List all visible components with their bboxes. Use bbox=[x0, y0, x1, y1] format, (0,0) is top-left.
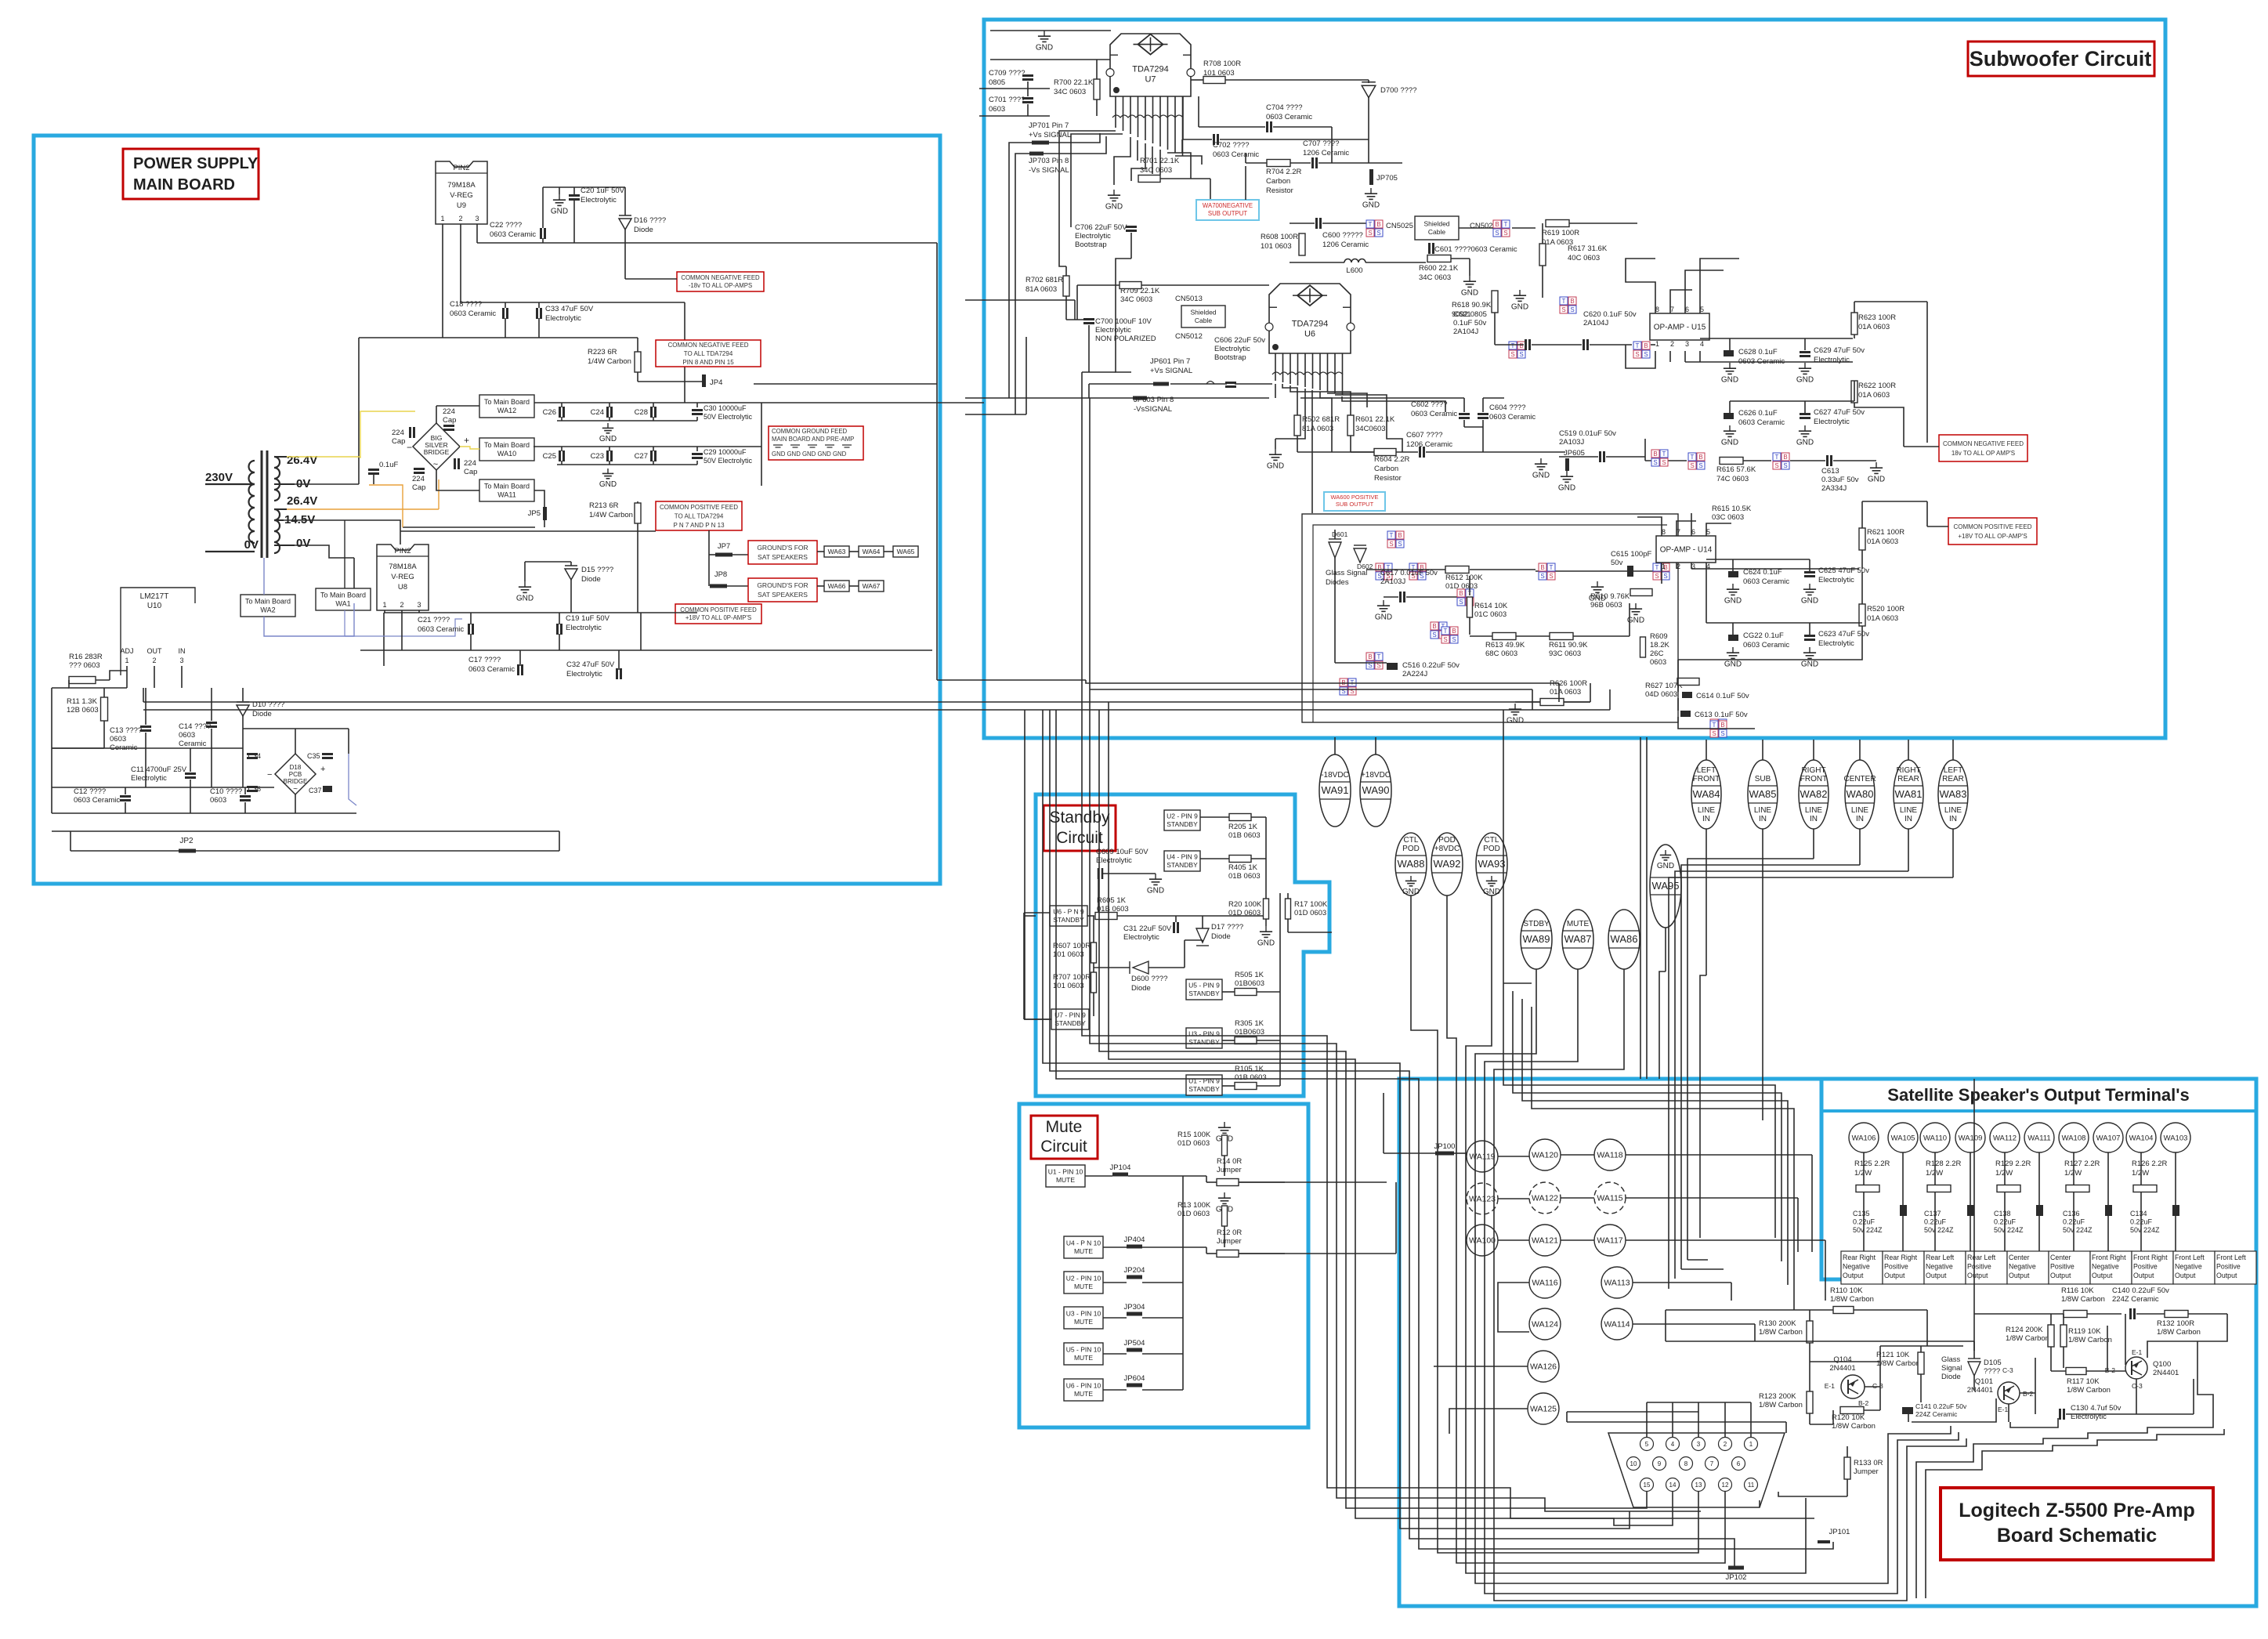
wire bbox=[125, 787, 126, 794]
svg-text:1/2W: 1/2W bbox=[2064, 1169, 2082, 1178]
svg-text:S: S bbox=[1698, 462, 1702, 469]
svg-text:C29 10000uF: C29 10000uF bbox=[704, 448, 747, 456]
resistor bbox=[1235, 989, 1257, 996]
svg-text:Output: Output bbox=[2092, 1272, 2113, 1279]
wire bbox=[274, 519, 284, 521]
svg-text:R132 100R: R132 100R bbox=[2157, 1319, 2194, 1328]
svg-text:R618 90.9K: R618 90.9K bbox=[1452, 301, 1492, 309]
capacitor bbox=[606, 450, 609, 461]
wire bbox=[1282, 374, 1284, 382]
net marker bbox=[1688, 453, 1696, 461]
svg-text:L600: L600 bbox=[1346, 266, 1362, 275]
capacitor bbox=[1173, 922, 1175, 933]
capacitor C34 bbox=[247, 753, 258, 755]
wire bbox=[1809, 1343, 1810, 1362]
svg-text:SUB: SUB bbox=[1755, 775, 1771, 783]
wire bbox=[1375, 737, 1376, 758]
wire bbox=[1470, 635, 1492, 637]
svg-text:1: 1 bbox=[440, 215, 444, 223]
wire bbox=[1222, 1040, 1235, 1041]
wire bbox=[1282, 384, 1297, 415]
op-amp U15 bbox=[1650, 313, 1709, 340]
capacitor C609 bbox=[1098, 868, 1100, 879]
svg-text:Cap: Cap bbox=[443, 416, 456, 425]
DB15 pin 15 bbox=[1640, 1478, 1654, 1492]
wire bbox=[1536, 570, 1627, 572]
svg-text:01D 0603: 01D 0603 bbox=[1177, 1139, 1210, 1148]
svg-text:101 0603: 101 0603 bbox=[1261, 242, 1292, 251]
svg-text:R15 100K: R15 100K bbox=[1177, 1131, 1211, 1139]
wire bbox=[1088, 325, 1090, 372]
wire bus bbox=[1494, 969, 1907, 1601]
resistor bbox=[1091, 972, 1097, 993]
svg-text:JP605: JP605 bbox=[1564, 449, 1585, 458]
ground bbox=[524, 581, 526, 587]
wire bbox=[1464, 426, 1483, 428]
svg-text:WA90: WA90 bbox=[1362, 784, 1390, 796]
svg-text:C627 47uF 50v: C627 47uF 50v bbox=[1814, 408, 1865, 417]
svg-text:WA91: WA91 bbox=[1322, 784, 1349, 796]
svg-text:R117 10K: R117 10K bbox=[2067, 1377, 2100, 1386]
svg-text:0.22uF: 0.22uF bbox=[2063, 1218, 2085, 1226]
capacitor 224 bbox=[409, 427, 411, 438]
voltage regulator U9 79M18A bbox=[436, 161, 487, 224]
svg-text:GND: GND bbox=[1796, 438, 1814, 447]
capacitor bbox=[1083, 318, 1094, 320]
svg-text:GROUND'S FOR: GROUND'S FOR bbox=[757, 581, 808, 589]
wire bbox=[534, 402, 984, 403]
svg-text:U8: U8 bbox=[398, 583, 407, 592]
svg-text:Electrolytic: Electrolytic bbox=[1075, 232, 1111, 241]
wire bbox=[2050, 1314, 2052, 1325]
wire bbox=[1290, 162, 1311, 164]
svg-text:Center: Center bbox=[2050, 1254, 2071, 1261]
wire bbox=[470, 613, 472, 624]
diode D600 bbox=[1133, 961, 1148, 974]
svg-text:GND: GND bbox=[1036, 43, 1053, 52]
svg-text:OP-AMP - U14: OP-AMP - U14 bbox=[1660, 546, 1713, 555]
svg-text:Rear Right: Rear Right bbox=[1884, 1254, 1918, 1261]
ground bbox=[1876, 462, 1877, 468]
svg-text:WA105: WA105 bbox=[1891, 1134, 1915, 1143]
svg-text:Diode: Diode bbox=[634, 226, 653, 234]
wire bbox=[965, 299, 1075, 301]
svg-text:224: 224 bbox=[443, 407, 455, 416]
svg-text:Output: Output bbox=[2133, 1272, 2154, 1279]
svg-text:T: T bbox=[1636, 342, 1640, 349]
wire bbox=[1647, 1402, 1751, 1403]
capacitor bbox=[1419, 447, 1421, 458]
wire bbox=[476, 224, 478, 243]
wire bbox=[1677, 521, 1696, 536]
connector WA86 bbox=[1608, 910, 1640, 969]
label grounds for sat speakers bbox=[748, 541, 817, 564]
svg-text:MUTE: MUTE bbox=[1567, 920, 1590, 928]
wire bbox=[1023, 913, 1025, 1019]
svg-text:GND: GND bbox=[1483, 888, 1500, 896]
net marker bbox=[1409, 563, 1417, 571]
wire bbox=[1089, 398, 1091, 689]
svg-text:To Main Board: To Main Board bbox=[484, 441, 530, 449]
svg-text:ADJ: ADJ bbox=[120, 647, 133, 655]
ground bbox=[1469, 276, 1470, 281]
svg-text:WA63: WA63 bbox=[828, 548, 846, 555]
svg-text:B-2: B-2 bbox=[2105, 1366, 2116, 1374]
svg-text:GND: GND bbox=[1801, 596, 1818, 605]
svg-text:2N4401: 2N4401 bbox=[1829, 1364, 1855, 1373]
connector WA63 bbox=[824, 546, 849, 557]
svg-text:POD: POD bbox=[1483, 845, 1500, 853]
cable CN5025 bbox=[1415, 216, 1459, 240]
svg-text:R621 100R: R621 100R bbox=[1867, 528, 1904, 537]
svg-text:S: S bbox=[1561, 306, 1565, 313]
wire bbox=[637, 523, 638, 613]
svg-text:FRONT: FRONT bbox=[1693, 775, 1720, 783]
wire bbox=[637, 338, 638, 352]
wire bbox=[1503, 982, 1532, 984]
svg-text:2: 2 bbox=[400, 601, 403, 609]
svg-text:13: 13 bbox=[1695, 1482, 1702, 1489]
wire bbox=[2050, 1347, 2052, 1371]
wire bbox=[1590, 683, 1591, 702]
connector WA84 bbox=[1691, 760, 1721, 829]
wire bbox=[684, 302, 685, 340]
svg-text:WA12: WA12 bbox=[497, 407, 516, 414]
wire bbox=[1934, 1152, 1936, 1185]
svg-text:R123 200K: R123 200K bbox=[1759, 1392, 1796, 1401]
svg-text:GND: GND bbox=[1507, 716, 1524, 725]
wire stair bbox=[1897, 1432, 1959, 1451]
svg-text:JP5: JP5 bbox=[528, 509, 541, 518]
svg-text:T: T bbox=[1562, 298, 1566, 305]
wire bbox=[1700, 259, 1739, 313]
connector WA90 bbox=[1360, 754, 1391, 827]
svg-text:Output: Output bbox=[2175, 1272, 2196, 1279]
svg-text:R611 90.9K: R611 90.9K bbox=[1549, 641, 1588, 649]
wire bbox=[1732, 623, 1734, 635]
svg-text:C28: C28 bbox=[635, 408, 648, 417]
wire bbox=[196, 850, 559, 852]
wire bbox=[1609, 689, 1611, 710]
svg-text:1/4W Carbon: 1/4W Carbon bbox=[589, 511, 633, 519]
wire bbox=[1287, 893, 1289, 899]
wire bbox=[1176, 915, 1266, 917]
svg-text:U2 - PIN 10: U2 - PIN 10 bbox=[1066, 1275, 1101, 1283]
wire bbox=[1065, 296, 1067, 320]
svg-text:C134: C134 bbox=[2130, 1210, 2147, 1217]
svg-text:STANDBY: STANDBY bbox=[1167, 820, 1198, 828]
svg-text:R205 1K: R205 1K bbox=[1228, 823, 1258, 831]
svg-text:0.22uF: 0.22uF bbox=[1994, 1218, 2017, 1226]
resistor R128 bbox=[1927, 1185, 1951, 1192]
svg-text:R213 6R: R213 6R bbox=[589, 501, 619, 510]
wire bbox=[1859, 829, 1861, 865]
wire bbox=[1182, 1354, 1184, 1390]
ground bbox=[1265, 926, 1267, 932]
capacitor bbox=[140, 725, 151, 728]
net marker bbox=[1457, 589, 1465, 597]
wire bus bbox=[1043, 710, 1630, 1529]
wire bbox=[1224, 1205, 1225, 1207]
resistor R612 bbox=[1445, 566, 1469, 573]
wire bbox=[1626, 259, 1655, 313]
svg-text:0603: 0603 bbox=[179, 731, 195, 740]
wire bbox=[436, 406, 437, 423]
wire bbox=[1809, 1362, 1810, 1391]
resistor bbox=[101, 697, 108, 721]
svg-text:3: 3 bbox=[417, 601, 421, 609]
resistor bbox=[69, 677, 96, 684]
svg-text:B: B bbox=[1452, 628, 1456, 635]
wire bbox=[1257, 1040, 1280, 1041]
connector U6 pin10 bbox=[1064, 1379, 1103, 1401]
wire bbox=[274, 483, 295, 485]
svg-text:WA67: WA67 bbox=[863, 582, 881, 590]
svg-text:Rear Left: Rear Left bbox=[1967, 1254, 1996, 1261]
svg-text:R520 100R: R520 100R bbox=[1867, 605, 1904, 613]
svg-text:WA85: WA85 bbox=[1749, 788, 1777, 800]
wire bbox=[1130, 233, 1132, 259]
wire bbox=[1691, 563, 1692, 569]
DB15 pin 12 bbox=[1719, 1478, 1732, 1492]
svg-text:CN5013: CN5013 bbox=[1175, 295, 1203, 303]
svg-text:1: 1 bbox=[382, 601, 386, 609]
wire bbox=[1973, 1341, 1975, 1359]
wire bbox=[143, 688, 144, 702]
svg-text:01D 0603: 01D 0603 bbox=[1177, 1210, 1210, 1218]
svg-text:93C 0603: 93C 0603 bbox=[1549, 649, 1581, 658]
wire bbox=[2086, 1370, 2125, 1372]
capacitor bbox=[368, 469, 379, 471]
svg-text:D105: D105 bbox=[1984, 1359, 2002, 1367]
svg-text:10: 10 bbox=[1630, 1460, 1637, 1467]
ground bbox=[559, 194, 560, 200]
svg-text:0.1uF: 0.1uF bbox=[379, 461, 398, 469]
wire bus bbox=[1532, 1007, 1794, 1310]
wire bbox=[1275, 389, 1305, 439]
wire bbox=[1677, 660, 1679, 692]
ground bbox=[1597, 581, 1598, 587]
svg-text:GND: GND bbox=[599, 435, 617, 443]
net marker bbox=[1340, 678, 1347, 686]
svg-text:C140 0.22uF 50v: C140 0.22uF 50v bbox=[2112, 1286, 2169, 1295]
wire bbox=[2193, 1379, 2194, 1414]
wire bbox=[1804, 338, 1806, 350]
capacitor C136 bbox=[2105, 1205, 2112, 1216]
wire bbox=[1117, 915, 1176, 917]
connector U2 pin10 bbox=[1064, 1272, 1103, 1293]
connector WA95 bbox=[1650, 845, 1681, 928]
wire bus bbox=[1700, 975, 1706, 1238]
svg-text:C18 ????: C18 ???? bbox=[450, 300, 482, 309]
svg-text:MUTE: MUTE bbox=[1056, 1176, 1075, 1184]
wire bbox=[1759, 1500, 1760, 1507]
svg-text:R609: R609 bbox=[1650, 632, 1668, 641]
connector WA111 bbox=[2024, 1123, 2054, 1152]
svg-text:R605 1K: R605 1K bbox=[1097, 896, 1127, 905]
svg-text:Electrolytic: Electrolytic bbox=[1818, 576, 1854, 584]
wire bbox=[1183, 139, 1212, 140]
wire bbox=[1131, 143, 1145, 181]
wire bbox=[754, 383, 937, 385]
svg-text:LM217T: LM217T bbox=[140, 592, 169, 601]
svg-text:34C 0603: 34C 0603 bbox=[1419, 273, 1451, 282]
resistor R125 bbox=[1856, 1185, 1879, 1192]
svg-text:1/4W Carbon: 1/4W Carbon bbox=[588, 357, 631, 366]
svg-text:01A 0603: 01A 0603 bbox=[1858, 391, 1890, 400]
wire bbox=[1225, 79, 1369, 81]
capacitor bbox=[1213, 134, 1215, 145]
wire bbox=[1699, 351, 1701, 362]
wire bbox=[1503, 710, 1504, 983]
svg-text:101 0603: 101 0603 bbox=[1053, 982, 1084, 990]
wire bbox=[1334, 737, 1336, 758]
svg-text:9: 9 bbox=[1658, 1460, 1662, 1467]
connector WA124 bbox=[1529, 1308, 1561, 1340]
wire bbox=[1970, 1152, 1971, 1210]
wire bbox=[2136, 1313, 2165, 1315]
Satellite Speaker Output section frame bbox=[1821, 1079, 2256, 1279]
svg-text:C624 0.1uF: C624 0.1uF bbox=[1743, 568, 1782, 577]
wire bbox=[609, 461, 610, 465]
svg-text:1206 Ceramic: 1206 Ceramic bbox=[1406, 440, 1452, 449]
title Logitech Z-5500 Pre-Amp Board Schematic bbox=[1941, 1488, 2213, 1560]
svg-text:??? 0603: ??? 0603 bbox=[69, 661, 100, 670]
svg-text:C135: C135 bbox=[1853, 1210, 1870, 1217]
svg-text:Glass: Glass bbox=[1941, 1355, 1961, 1364]
svg-text:0V: 0V bbox=[296, 537, 310, 550]
wire bbox=[1093, 916, 1094, 943]
resistor bbox=[1222, 1135, 1228, 1156]
capacitor bbox=[2059, 1409, 2061, 1420]
svg-text:WA124: WA124 bbox=[1532, 1320, 1558, 1330]
wire bbox=[1920, 1346, 1922, 1352]
svg-text:Center: Center bbox=[2009, 1254, 2029, 1261]
wire bbox=[436, 470, 479, 490]
svg-text:Resistor: Resistor bbox=[1266, 186, 1293, 195]
svg-text:R607 100R: R607 100R bbox=[1053, 942, 1091, 950]
diode D17 bbox=[1196, 928, 1209, 943]
wire bbox=[2038, 1216, 2040, 1254]
DB15 pin 6 bbox=[1732, 1457, 1745, 1471]
wire bbox=[1366, 569, 1445, 570]
wire bbox=[1973, 1376, 1975, 1391]
wire bbox=[936, 243, 938, 680]
wire bbox=[2136, 1413, 2194, 1415]
connector WA120 bbox=[1529, 1139, 1561, 1170]
resistor bbox=[1640, 637, 1646, 657]
wire bbox=[274, 545, 295, 546]
svg-text:2: 2 bbox=[1724, 1441, 1727, 1448]
wire bbox=[1863, 1152, 1865, 1185]
wire bbox=[1854, 1309, 1927, 1311]
wire bbox=[110, 671, 127, 680]
wire bbox=[1785, 1422, 1787, 1433]
resistor bbox=[1091, 943, 1097, 963]
wire bbox=[359, 337, 638, 338]
wire bbox=[1934, 1192, 1936, 1254]
wire bbox=[1861, 626, 1863, 639]
Standby Circuit section frame bbox=[1036, 794, 1329, 1096]
svg-text:Positive: Positive bbox=[2216, 1263, 2241, 1271]
svg-text:1/8W Carbon: 1/8W Carbon bbox=[1876, 1359, 1920, 1368]
svg-text:Output: Output bbox=[2050, 1272, 2071, 1279]
capacitor C614 bbox=[1682, 692, 1692, 698]
diode D602 bbox=[1354, 548, 1366, 563]
wire bbox=[243, 728, 349, 729]
wire bbox=[1512, 227, 1536, 229]
svg-text:WA80: WA80 bbox=[1847, 788, 1874, 800]
svg-text:0603 Ceramic: 0603 Ceramic bbox=[1213, 150, 1259, 159]
resistor bbox=[1229, 814, 1251, 821]
transistor Q104 bbox=[1841, 1375, 1865, 1398]
svg-text:40C 0603: 40C 0603 bbox=[1568, 254, 1600, 262]
capacitor bbox=[1315, 218, 1318, 229]
connector WA109 bbox=[1955, 1123, 1985, 1152]
svg-text:2N4401: 2N4401 bbox=[1967, 1386, 1993, 1395]
svg-text:GND: GND bbox=[1657, 862, 1674, 870]
wire bbox=[1174, 96, 1176, 118]
svg-text:78M18A: 78M18A bbox=[389, 563, 417, 571]
label common positive feed opamps bbox=[1948, 518, 2037, 545]
wire bbox=[274, 508, 287, 510]
svg-text:C21 ????: C21 ???? bbox=[418, 616, 450, 624]
svg-text:Negative: Negative bbox=[2175, 1263, 2202, 1271]
wire bbox=[1778, 1492, 1847, 1496]
net marker bbox=[1387, 531, 1395, 539]
svg-text:Rear Right: Rear Right bbox=[1843, 1254, 1876, 1261]
IC U10 LM217T outline bbox=[121, 588, 195, 675]
capacitor bbox=[185, 772, 196, 775]
wire bbox=[1103, 1282, 1127, 1283]
svg-text:01D 0603: 01D 0603 bbox=[1294, 909, 1326, 917]
wire bbox=[1564, 701, 1590, 703]
wire bbox=[344, 520, 345, 588]
wire bbox=[2038, 1152, 2040, 1210]
wire bbox=[1174, 118, 1176, 153]
svg-text:14: 14 bbox=[1669, 1482, 1677, 1489]
connector WA106 bbox=[1849, 1123, 1879, 1152]
wire bbox=[1342, 374, 1344, 395]
wire bbox=[1503, 982, 1504, 984]
svg-text:Electrolytic: Electrolytic bbox=[566, 670, 602, 678]
wire bbox=[653, 447, 654, 451]
wire bbox=[1606, 456, 1645, 458]
wire bbox=[460, 224, 461, 302]
svg-text:R120 10K: R120 10K bbox=[1832, 1413, 1865, 1422]
capacitor C629 bbox=[1800, 351, 1810, 353]
jumper bbox=[710, 584, 727, 588]
transformer secondary 26.4V bbox=[274, 457, 280, 501]
wire bus bbox=[1411, 895, 1698, 1553]
svg-text:MAIN BOARD AND PRE-AMP: MAIN BOARD AND PRE-AMP bbox=[772, 436, 854, 443]
resistor bbox=[1222, 1206, 1228, 1226]
svg-text:D15 ????: D15 ???? bbox=[581, 566, 613, 574]
wire bbox=[1469, 576, 1470, 595]
svg-text:Circuit: Circuit bbox=[1040, 1138, 1087, 1156]
wire bbox=[2066, 1413, 2136, 1415]
net marker bbox=[1560, 297, 1568, 305]
wire bbox=[1813, 740, 1814, 760]
svg-text:230V: 230V bbox=[205, 471, 233, 484]
svg-text:R124 200K: R124 200K bbox=[2006, 1326, 2043, 1334]
wire bbox=[1103, 1246, 1127, 1248]
wire bbox=[1275, 384, 1276, 398]
svg-text:T: T bbox=[1444, 628, 1448, 635]
svg-text:C606 22uF 50v: C606 22uF 50v bbox=[1214, 336, 1265, 345]
svg-text:C137: C137 bbox=[1924, 1210, 1941, 1217]
svg-text:T: T bbox=[1775, 454, 1779, 461]
